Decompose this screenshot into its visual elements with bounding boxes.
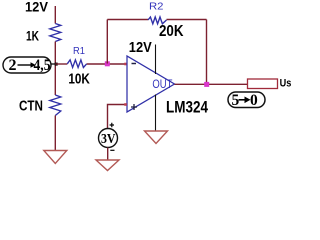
svg-text:5: 5 <box>232 92 240 109</box>
op-amp U1 LM324 triangle <box>127 56 175 112</box>
wire 12V rail to 1K <box>54 6 56 24</box>
svg-text:OUT: OUT <box>152 79 172 91</box>
svg-text:12V: 12V <box>25 0 49 15</box>
ground (under op-amp) <box>145 131 168 144</box>
svg-text:4,5: 4,5 <box>34 57 51 74</box>
wire 3V to ground <box>107 148 109 161</box>
pin square at inverting input <box>124 63 127 66</box>
wire feedback top right segment <box>167 19 207 21</box>
wire op-amp + input to 3V <box>108 105 127 129</box>
output probe box Us <box>248 79 278 89</box>
non-inverting input marker + <box>131 104 137 110</box>
svg-text:R2: R2 <box>149 0 164 12</box>
svg-text:CTN: CTN <box>19 99 43 115</box>
battery plus marker <box>110 123 114 127</box>
svg-text:R1: R1 <box>73 45 85 57</box>
wire feedback up <box>106 20 108 64</box>
svg-text:LM324: LM324 <box>166 99 209 117</box>
wire R1 to op-amp inverting input <box>87 63 127 65</box>
resistor 1K (vertical zigzag) <box>50 24 61 42</box>
svg-text:2: 2 <box>9 57 17 74</box>
svg-text:0: 0 <box>250 92 258 109</box>
resistor R2 (horizontal zigzag) <box>148 17 167 24</box>
junction node (R1 / feedback) <box>105 61 110 66</box>
terminal pin stub <box>51 63 55 65</box>
svg-text:20K: 20K <box>159 23 184 40</box>
svg-text:10K: 10K <box>68 72 90 88</box>
ground (left, under CTN) <box>44 151 67 164</box>
battery minus marker <box>110 149 114 151</box>
ground (under 3V) <box>96 160 119 171</box>
wire node to R1 <box>55 63 67 65</box>
wire feedback top left segment <box>107 19 148 21</box>
svg-text:1K: 1K <box>26 28 39 44</box>
svg-text:Us: Us <box>280 78 292 90</box>
op-amp V- power pin <box>155 95 157 132</box>
wire op-amp output to Us box <box>175 83 248 85</box>
resistor R1 (horizontal zigzag) <box>67 60 86 68</box>
thermistor CTN (vertical zigzag) <box>50 95 61 116</box>
wire feedback down to output node <box>206 20 208 85</box>
junction node (output / feedback) <box>204 82 209 87</box>
inverting input marker - <box>132 63 137 65</box>
input terminal oval 2->4,5 <box>3 57 51 73</box>
svg-text:12V: 12V <box>129 39 152 56</box>
pin square at non-inverting input <box>124 103 127 106</box>
op-amp V+ power pin <box>155 45 157 75</box>
svg-text:3V: 3V <box>101 131 116 146</box>
battery 3V circle <box>99 129 118 148</box>
wire 1K to CTN rail <box>54 42 56 96</box>
terminal pin square <box>55 63 58 66</box>
wire CTN to ground <box>54 116 56 151</box>
output annotation oval 5->0 <box>228 92 265 108</box>
